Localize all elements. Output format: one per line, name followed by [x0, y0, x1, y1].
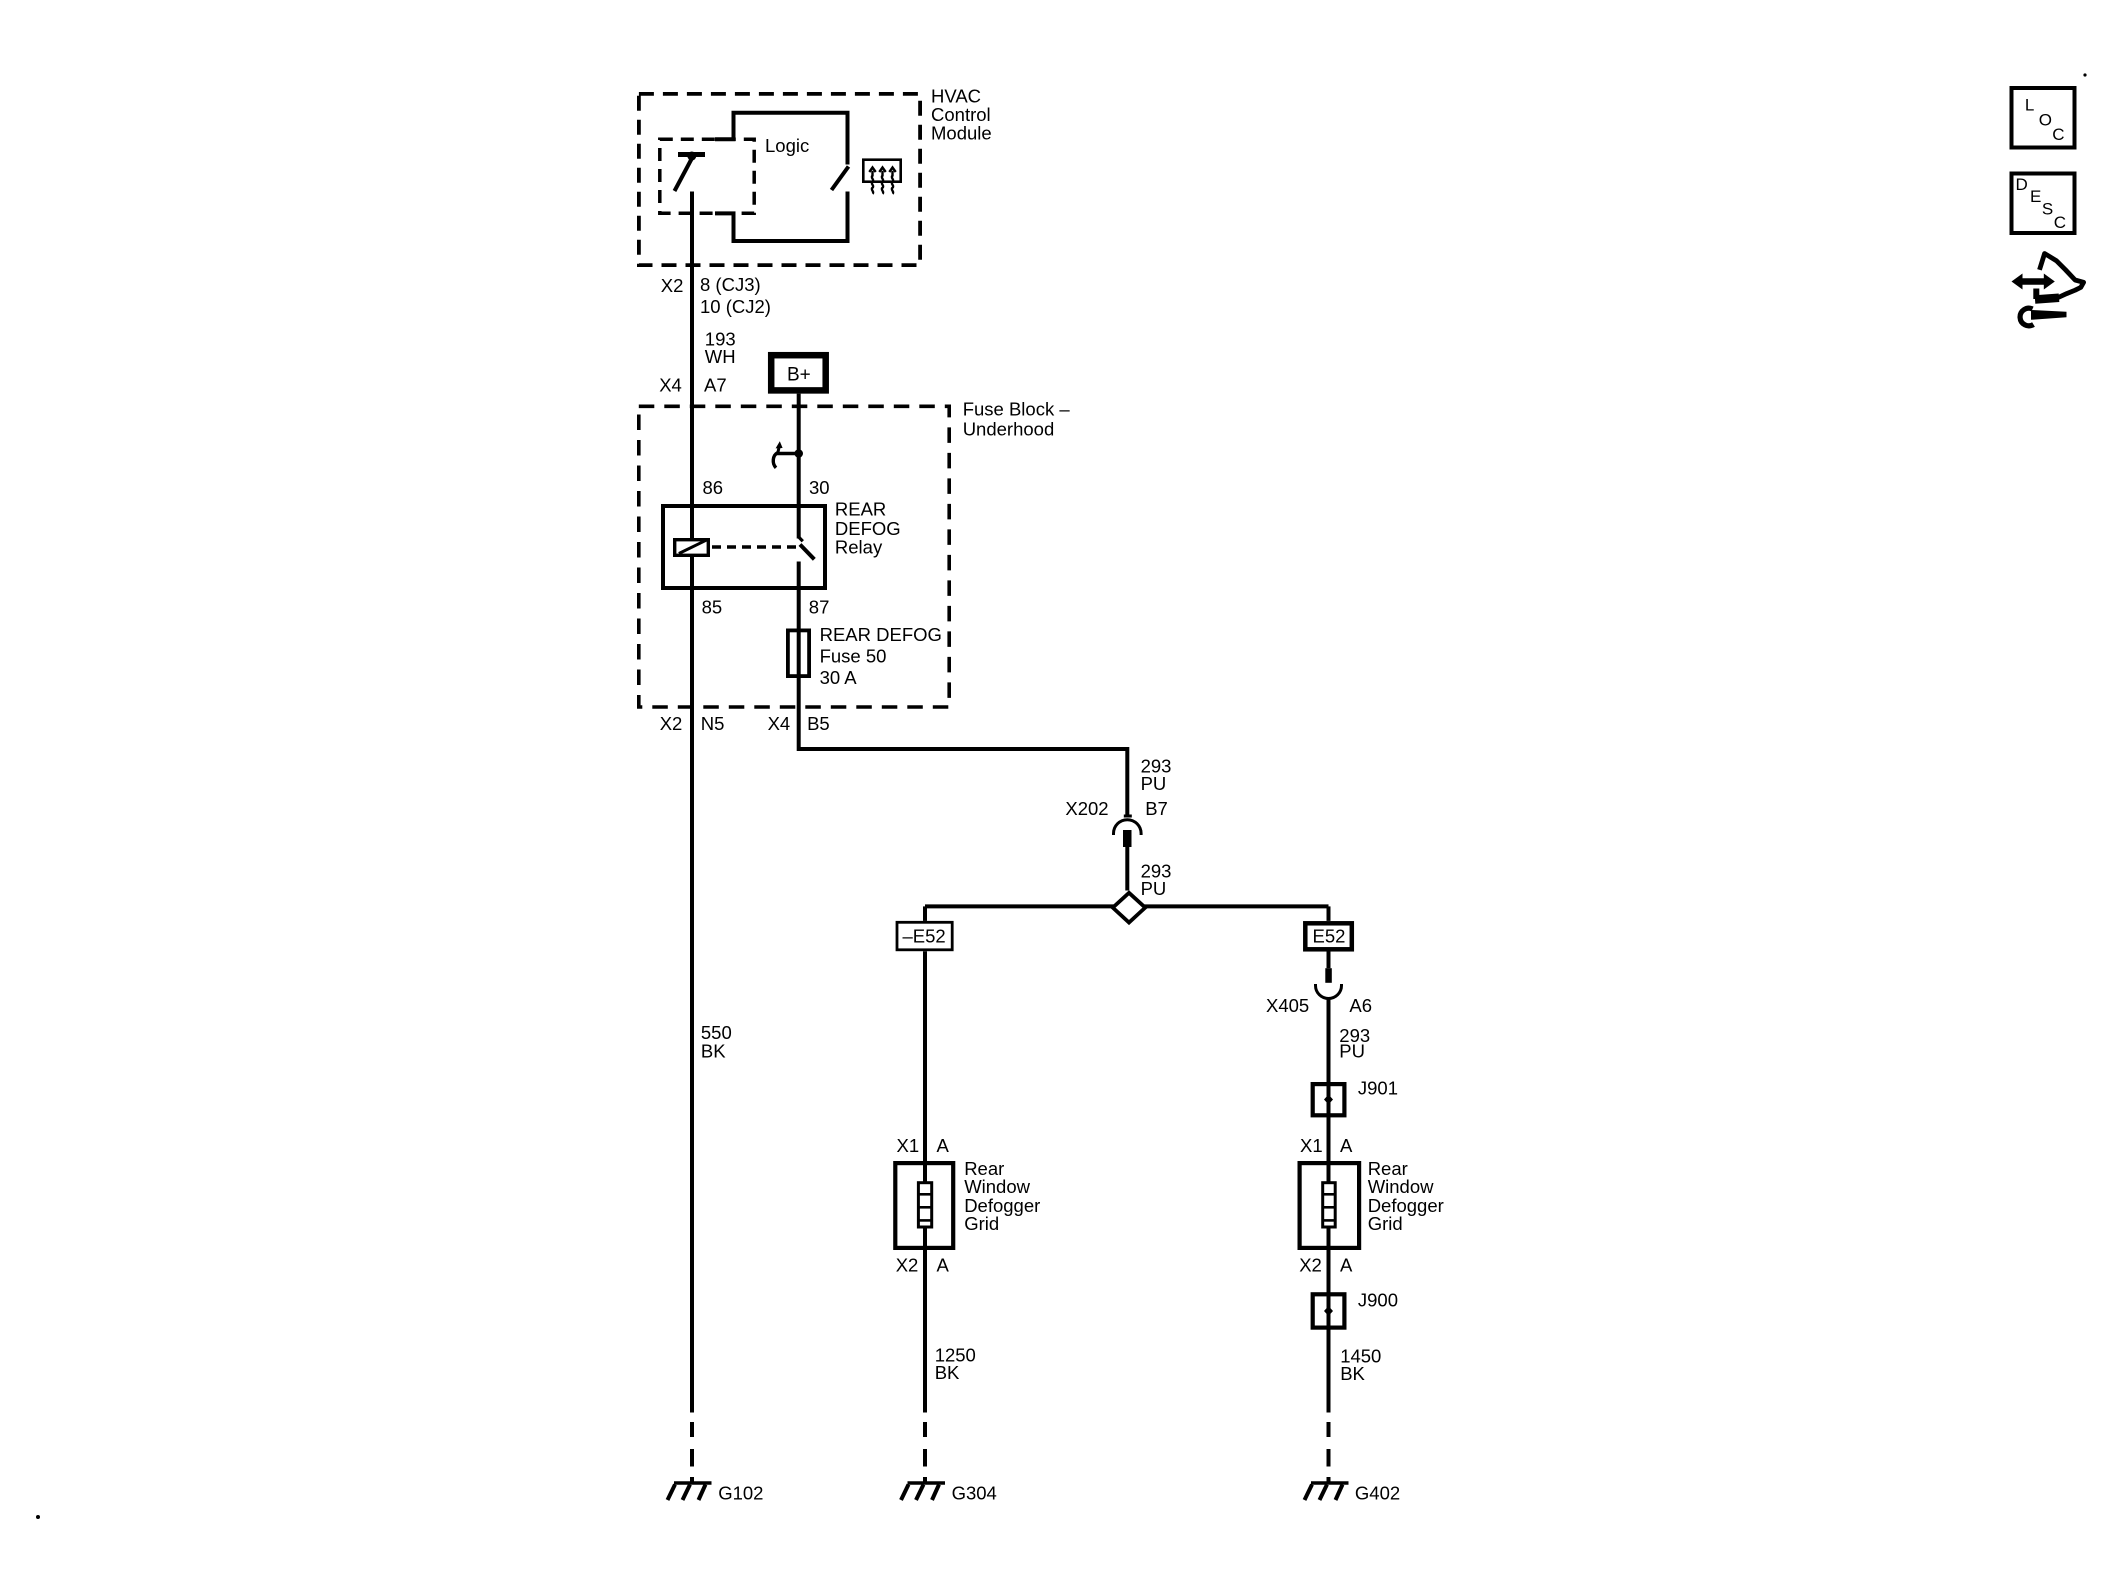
- repair info icon: outline arrow: [2040, 254, 2084, 298]
- svg-text:B7: B7: [1145, 798, 1168, 819]
- svg-text:BK: BK: [935, 1362, 960, 1383]
- wire: dashed tail to G102: [690, 1422, 694, 1484]
- relay switch arm: [799, 537, 803, 541]
- svg-text:30 A: 30 A: [820, 667, 858, 688]
- splice diamond: [1113, 893, 1145, 923]
- component box -E52: [897, 922, 952, 950]
- svg-text:PU: PU: [1141, 878, 1167, 899]
- wire: left branch to -E52: [923, 906, 927, 921]
- wire: HVAC switch output 193 WH / 550 BK vertical run x=692: [690, 192, 694, 1413]
- svg-text:A6: A6: [1349, 995, 1372, 1016]
- grid element (right): [1323, 1183, 1336, 1227]
- svg-text:Fuse Block –: Fuse Block –: [963, 398, 1071, 419]
- inner dashed box (switch compartment): [660, 139, 754, 213]
- svg-text:G102: G102: [718, 1483, 763, 1504]
- switch inside HVAC: fixed contact bar: [678, 152, 705, 157]
- wire: dashed tail to G402: [1327, 1422, 1331, 1484]
- circuit breaker hook at junction: [773, 441, 803, 468]
- svg-text:WH: WH: [705, 346, 736, 367]
- svg-text:X1: X1: [897, 1135, 920, 1156]
- svg-text:BK: BK: [1340, 1363, 1365, 1384]
- svg-text:30: 30: [809, 477, 830, 498]
- grid element (left): [918, 1183, 931, 1227]
- svg-text:Logic: Logic: [765, 135, 809, 156]
- svg-text:E52: E52: [1313, 926, 1346, 947]
- switch contact on logic box right edge: [832, 167, 849, 191]
- svg-text:PU: PU: [1339, 1040, 1365, 1061]
- svg-text:J900: J900: [1358, 1290, 1398, 1311]
- svg-text:A: A: [1340, 1135, 1353, 1156]
- component box E52: [1305, 923, 1352, 949]
- svg-text:REAR: REAR: [835, 499, 886, 520]
- stray dot bottom left: [36, 1515, 40, 1519]
- connector X202 B7: [1114, 815, 1142, 848]
- svg-text:X2: X2: [661, 275, 684, 296]
- wire: X405 through J901, grid, J900, down: [1327, 998, 1331, 1413]
- wire: E52 to X405: [1327, 952, 1331, 969]
- relay actuation dashed link: [712, 545, 797, 548]
- svg-text:A: A: [937, 1254, 950, 1275]
- svg-text:A: A: [937, 1135, 950, 1156]
- ground G402: [1305, 1483, 1349, 1500]
- svg-text:REAR DEFOG: REAR DEFOG: [820, 624, 942, 645]
- wire: B+ feed down through relay pin30/87 and fuse: [797, 394, 801, 539]
- svg-text:D: D: [2016, 175, 2028, 194]
- Fuse Block - Underhood dashed box: [639, 406, 949, 707]
- svg-text:–E52: –E52: [903, 926, 946, 947]
- Rear Window Defogger Grid (left) box: [895, 1163, 953, 1248]
- svg-text:85: 85: [702, 597, 723, 618]
- svg-text:Underhood: Underhood: [963, 419, 1055, 440]
- svg-text:86: 86: [703, 477, 724, 498]
- svg-text:8 (CJ3): 8 (CJ3): [700, 274, 761, 295]
- svg-text:PU: PU: [1141, 773, 1167, 794]
- svg-text:Grid: Grid: [1368, 1213, 1403, 1234]
- svg-text:C: C: [2054, 213, 2066, 232]
- svg-text:S: S: [2042, 200, 2053, 219]
- svg-text:BK: BK: [701, 1041, 726, 1062]
- svg-text:B5: B5: [807, 713, 830, 734]
- switch movable arm (open): [675, 159, 692, 192]
- svg-text:Grid: Grid: [964, 1213, 999, 1234]
- svg-text:Fuse 50: Fuse 50: [820, 645, 887, 666]
- wire: left branch -E52 to defogger grid and down: [923, 951, 927, 1412]
- splice connector J901: [1313, 1084, 1345, 1115]
- B+ power symbol: [771, 355, 826, 390]
- svg-text:Module: Module: [931, 123, 992, 144]
- splice connector J900: [1313, 1294, 1345, 1327]
- svg-text:B+: B+: [787, 365, 811, 386]
- defogger indicator icon: [863, 160, 900, 194]
- REAR DEFOG Fuse 50: [788, 630, 809, 676]
- svg-text:A: A: [1340, 1254, 1353, 1275]
- logic box (solid, notched outline): [715, 113, 848, 165]
- svg-text:Relay: Relay: [835, 536, 883, 557]
- svg-text:X4: X4: [768, 713, 791, 734]
- REAR DEFOG Relay box: [663, 506, 825, 588]
- svg-text:N5: N5: [701, 713, 725, 734]
- wire: right branch to E52: [1327, 906, 1331, 921]
- repair info icon: double arrow: [2012, 274, 2055, 290]
- relay coil: [675, 540, 709, 556]
- svg-text:X2: X2: [660, 713, 683, 734]
- svg-text:L: L: [2025, 96, 2034, 115]
- connector X405 A6: [1316, 968, 1342, 998]
- svg-text:X1: X1: [1300, 1135, 1323, 1156]
- wire: dashed tail to G304: [923, 1422, 927, 1484]
- svg-text:X405: X405: [1266, 995, 1309, 1016]
- HVAC Control Module dashed box: [639, 94, 920, 265]
- ground G304: [901, 1483, 945, 1500]
- svg-text:E: E: [2030, 187, 2041, 206]
- ground G102: [668, 1483, 712, 1500]
- DESC legend box: [2012, 174, 2075, 234]
- wire: splice horizontal run: [925, 904, 1329, 908]
- stray dot top right: [2083, 73, 2086, 76]
- svg-text:A7: A7: [704, 374, 727, 395]
- svg-text:J901: J901: [1358, 1077, 1398, 1098]
- repair info icon: wrench: [2020, 308, 2066, 326]
- svg-text:O: O: [2039, 111, 2052, 130]
- svg-text:G304: G304: [952, 1483, 997, 1504]
- svg-text:87: 87: [809, 597, 830, 618]
- svg-text:G402: G402: [1355, 1483, 1400, 1504]
- svg-text:X202: X202: [1065, 798, 1108, 819]
- svg-text:X2: X2: [1299, 1254, 1322, 1275]
- svg-text:C: C: [2052, 125, 2064, 144]
- switch pivot dot: [687, 152, 696, 161]
- wire: X202 to splice: [1125, 847, 1129, 891]
- svg-text:X2: X2: [896, 1254, 919, 1275]
- svg-text:10 (CJ2): 10 (CJ2): [700, 296, 771, 317]
- svg-text:X4: X4: [659, 374, 682, 395]
- Rear Window Defogger Grid (right) box: [1300, 1163, 1360, 1248]
- LOC legend box: [2012, 88, 2075, 148]
